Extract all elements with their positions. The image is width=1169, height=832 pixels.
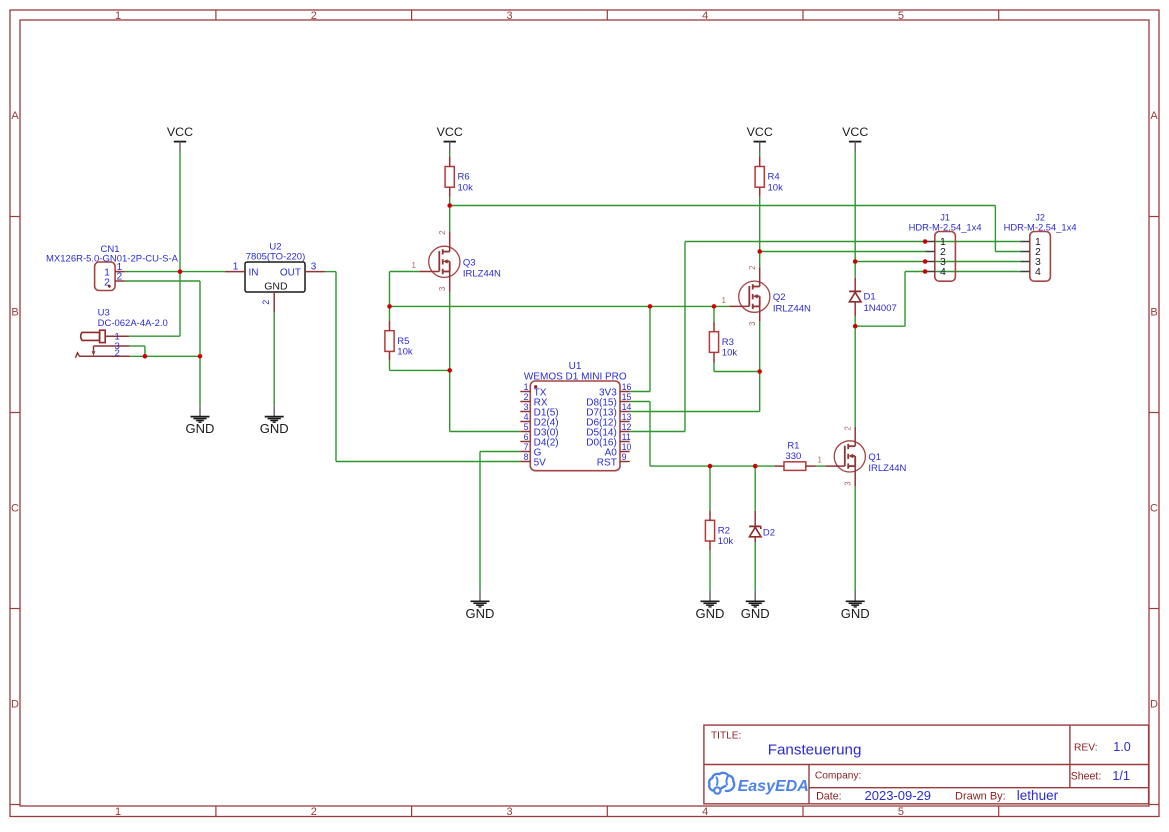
wire R2 drop from R1 row (709, 466, 711, 510)
wire D1 bottom to junction (854, 316, 856, 326)
svg-text:1N4007: 1N4007 (864, 303, 897, 314)
resistor R6 10k (445, 157, 473, 197)
svg-text:10k: 10k (722, 348, 738, 359)
svg-text:5V: 5V (534, 457, 547, 468)
wire R6 junction down to Q3 drain (449, 206, 451, 232)
wire vertical CN1 pin2 down to U3 pin2 row (199, 281, 201, 356)
wire U2 OUT to corner (325, 271, 336, 273)
svg-text:GND: GND (264, 281, 288, 293)
svg-text:HDR-M-2.54_1x4: HDR-M-2.54_1x4 (909, 221, 982, 232)
svg-text:MX126R-5.0-GN01-2P-CU-S-A: MX126R-5.0-GN01-2P-CU-S-A (46, 254, 179, 265)
svg-text:4: 4 (940, 266, 946, 278)
svg-text:2: 2 (311, 806, 317, 818)
svg-text:1: 1 (817, 456, 822, 465)
svg-text:15: 15 (622, 392, 632, 402)
svg-text:Drawn By:: Drawn By: (955, 791, 1006, 803)
wire J1 pin4 row (905, 271, 925, 273)
ground GND below CN1/U3 node (186, 406, 215, 436)
wire VCC down to D1 (854, 152, 856, 278)
wire U2 pin2 to GND (273, 312, 275, 406)
svg-text:Company:: Company: (815, 771, 861, 782)
svg-text:GND: GND (841, 606, 870, 621)
connector U3 DC-062A-4A-2.0 barrel jack (76, 308, 168, 360)
svg-text:GND: GND (186, 421, 215, 436)
Company label (815, 771, 861, 782)
svg-text:1: 1 (412, 261, 417, 270)
wire U1 pin7 G out (480, 451, 520, 453)
regulator U2 7805(TO-220) (225, 241, 325, 312)
wire U3 pin3 drop to pin2 row (144, 346, 146, 356)
title block TITLE label (711, 731, 741, 742)
wire D1 junction down to Q1 drain (854, 326, 856, 426)
svg-text:3: 3 (843, 481, 852, 486)
wire U1 pin14 to Q2 source vertical (630, 411, 760, 413)
svg-text:TITLE:: TITLE: (711, 731, 741, 742)
wire Q1 source down to GND (854, 486, 856, 590)
svg-text:2: 2 (748, 265, 757, 270)
svg-text:16: 16 (622, 382, 632, 392)
svg-text:2: 2 (311, 10, 317, 22)
svg-text:A: A (11, 110, 19, 122)
svg-text:C: C (1150, 502, 1158, 514)
svg-text:D2: D2 (763, 528, 775, 539)
svg-text:C: C (11, 502, 19, 514)
wire J1 pin3 through to J2 pin3 (935, 261, 1020, 263)
svg-text:7: 7 (524, 442, 529, 452)
junction VCC line / J1 pin3 row (853, 259, 858, 264)
wire D3 row to U1 pin5 (450, 431, 521, 433)
wire R4 VCC stub (759, 152, 761, 157)
Date label (816, 791, 842, 803)
wire R5 bottom to Q3 source line (390, 369, 450, 371)
wire R6 bottom to junction (449, 197, 451, 206)
svg-text:VCC: VCC (842, 125, 868, 139)
svg-text:A: A (1150, 110, 1158, 122)
svg-text:GND: GND (260, 421, 289, 436)
wire net row from R5 junction to Q2 gate (390, 305, 730, 307)
wire 3V3 vertical from row to U1 pin16 (649, 306, 651, 391)
svg-text:R4: R4 (768, 172, 780, 183)
Drawn By label (955, 791, 1006, 803)
wire G drop to GND (479, 452, 481, 591)
svg-text:D1: D1 (864, 292, 876, 303)
diode D1 1N4007 (849, 278, 897, 317)
svg-text:2: 2 (438, 230, 447, 235)
svg-text:lethuer: lethuer (1017, 788, 1059, 803)
svg-text:5: 5 (898, 806, 904, 818)
title Fansteuerung (768, 742, 862, 759)
svg-text:R5: R5 (397, 336, 409, 347)
svg-text:10k: 10k (718, 536, 734, 547)
wire Q3 source junction down to D3 row (449, 370, 451, 431)
wire corner up to J1 pin4 row (904, 272, 906, 327)
svg-text:10: 10 (622, 442, 632, 452)
svg-text:4: 4 (524, 412, 529, 422)
svg-text:B: B (1150, 306, 1157, 318)
svg-text:2: 2 (104, 277, 110, 289)
wire J1 pin4 through to J2 pin4 (935, 271, 1020, 273)
transistor Q1 IRLZ44N (817, 426, 906, 487)
svg-text:Q3: Q3 (463, 257, 476, 268)
ground GND below U1 pin G (466, 591, 495, 621)
wire Q2 source down to junction (759, 322, 761, 372)
svg-text:GND: GND (466, 606, 495, 621)
wire R4 bottom down to Q2 drain (759, 197, 761, 267)
junction U3 pin2 row / GND drop (198, 354, 203, 359)
svg-text:1: 1 (115, 806, 121, 818)
diode D2 (749, 511, 775, 542)
wire D1 junction to corner (855, 325, 905, 327)
wire R2 bottom to GND (709, 551, 711, 591)
svg-text:1: 1 (233, 261, 239, 272)
wire R3 bottom to Q2 source junction (714, 371, 760, 373)
resistor R4 10k (755, 157, 783, 197)
svg-text:330: 330 (785, 451, 801, 462)
ground GND below D2 (741, 591, 770, 621)
wire R5 line vertical gate to R5 top (389, 272, 391, 321)
svg-text:OUT: OUT (280, 268, 301, 279)
junction R4 line / J1 pin2 row (757, 249, 762, 254)
junction D2 top / R1 row (753, 464, 758, 469)
svg-text:10k: 10k (397, 347, 413, 358)
junction R3 top / gate net row (712, 304, 717, 309)
svg-text:3: 3 (748, 321, 757, 326)
svg-text:3: 3 (311, 261, 317, 272)
svg-text:Fansteuerung: Fansteuerung (768, 742, 862, 759)
junction Q2 source / R3 bottom (757, 369, 762, 374)
header J2 HDR-M-2.54_1x4 (1004, 212, 1077, 281)
wire D2 bottom to GND (754, 542, 756, 591)
Date value 2023-09-29 (865, 788, 932, 803)
wire U3 pin2 row to GND drop (130, 355, 200, 357)
svg-text:DC-062A-4A-2.0: DC-062A-4A-2.0 (98, 318, 168, 329)
svg-text:3: 3 (524, 402, 529, 412)
wire R3 bottom elbow (713, 363, 715, 372)
wire J1 pin1 row to J1 (685, 241, 925, 243)
junction R5 line / gate net row (387, 304, 392, 309)
svg-text:GND: GND (696, 606, 725, 621)
wire vertical U2 OUT down to 5V row (335, 272, 337, 462)
svg-text:1: 1 (115, 10, 121, 22)
junction 3V3 riser / gate net row (648, 304, 653, 309)
svg-text:R1: R1 (787, 441, 799, 452)
wire Q2 source vertical up to junction (759, 372, 761, 412)
wire R1 row from vertical to R1 (650, 465, 774, 467)
junction Q3 source / R5 bottom (447, 368, 452, 373)
svg-text:7805(TO-220): 7805(TO-220) (246, 252, 306, 263)
svg-text:12: 12 (622, 422, 632, 432)
svg-text:3: 3 (438, 286, 447, 291)
VCC symbol (net VCC) above CN1 (167, 125, 193, 151)
svg-text:IRLZ44N: IRLZ44N (463, 269, 501, 280)
VCC symbol above R6 (437, 125, 463, 151)
svg-text:EasyEDA: EasyEDA (738, 778, 809, 795)
svg-text:10k: 10k (458, 182, 474, 193)
transistor Q2 IRLZ44N (722, 265, 812, 326)
title block grid (704, 725, 1149, 804)
wire Q3 source to junction (449, 292, 451, 371)
svg-text:1.0: 1.0 (1113, 740, 1131, 754)
ground GND below U2 pin 2 (260, 406, 289, 436)
svg-text:9: 9 (622, 452, 627, 462)
MCU module U1 WEMOS D1 MINI PRO (520, 361, 631, 471)
svg-text:3: 3 (506, 806, 512, 818)
svg-text:2: 2 (117, 272, 123, 283)
svg-text:3: 3 (506, 10, 512, 22)
wire into J2 pin2 (995, 251, 1020, 253)
svg-text:B: B (11, 306, 18, 318)
svg-text:5: 5 (524, 422, 529, 432)
svg-text:D: D (11, 699, 19, 711)
svg-text:VCC: VCC (437, 125, 463, 139)
Drawn By value lethuer (1017, 788, 1059, 803)
svg-text:10k: 10k (768, 182, 784, 193)
wire U1 pin12 out (630, 431, 685, 433)
wire Q3 gate row from R5 line (390, 271, 420, 273)
svg-text:Q2: Q2 (773, 292, 786, 303)
wire long top net from R6 junction to right corner (450, 205, 996, 207)
REV label (1074, 743, 1098, 754)
svg-text:IN: IN (249, 268, 259, 279)
svg-text:D: D (1150, 699, 1158, 711)
svg-text:1: 1 (722, 296, 727, 305)
svg-text:GND: GND (741, 606, 770, 621)
Sheet value 1/1 (1112, 769, 1130, 783)
wire R1 to Q1 gate (816, 465, 826, 467)
svg-text:2023-09-29: 2023-09-29 (865, 788, 932, 803)
junction J1 pin1 (923, 239, 928, 244)
svg-text:4: 4 (1035, 266, 1041, 278)
svg-text:4: 4 (702, 806, 708, 818)
svg-text:8: 8 (524, 452, 529, 462)
wire U3 pin1 to VCC vertical (129, 335, 180, 337)
EasyEDA logo (709, 773, 809, 795)
svg-text:2: 2 (843, 426, 852, 431)
wire corner down toward J2 pin2 (994, 206, 996, 252)
wire CN1 pin1 to U2 IN (125, 271, 225, 273)
svg-text:14: 14 (622, 402, 632, 412)
svg-text:VCC: VCC (747, 125, 773, 139)
svg-text:5: 5 (898, 10, 904, 22)
wire 5V row to U1 pin8 (336, 461, 520, 463)
wire VCC vertical to CN1 pin1 row and U3 pin1 (179, 152, 181, 337)
svg-text:Date:: Date: (816, 791, 842, 803)
svg-text:1: 1 (524, 382, 529, 392)
ground GND below R2 (696, 591, 725, 621)
resistor R2 10k (705, 510, 733, 551)
wire U1 pin16 to vertical (630, 391, 650, 393)
svg-text:6: 6 (524, 432, 529, 442)
svg-text:2: 2 (524, 392, 529, 402)
junction D1 bottom / J1 pin4 route (853, 324, 858, 329)
resistor R3 10k (709, 322, 737, 363)
junction U3 pin3 / pin2 row (143, 354, 148, 359)
junction CN1 pin1 / VCC (178, 269, 183, 274)
svg-text:13: 13 (622, 412, 632, 422)
VCC symbol above D1 (842, 125, 868, 151)
svg-text:IRLZ44N: IRLZ44N (868, 463, 906, 474)
svg-text:2: 2 (261, 300, 271, 305)
wire D5 vertical up to J1 pin1 row (684, 242, 686, 432)
resistor R1 330 (774, 441, 815, 471)
wire GND drop below junction (199, 356, 201, 406)
wire U3 pin3 stub to drop (130, 345, 145, 347)
wire Q2 drain row to J1 pin2 (760, 251, 926, 253)
REV value 1.0 (1113, 740, 1131, 754)
wire J1 pin1 row through to J2 pin1 (935, 241, 1020, 243)
svg-text:R6: R6 (458, 172, 470, 183)
svg-text:1/1: 1/1 (1112, 769, 1130, 783)
junction J1 pin3 (923, 259, 928, 264)
svg-text:RST: RST (597, 457, 617, 468)
junction R2 top / R1 row (708, 464, 713, 469)
junction R6 bottom / top net (447, 203, 452, 208)
svg-text:HDR-M-2.54_1x4: HDR-M-2.54_1x4 (1004, 221, 1077, 232)
wire D2 drop from R1 row (754, 466, 756, 511)
wire U1 pin15 to vertical (630, 401, 650, 403)
svg-text:11: 11 (622, 432, 631, 442)
wire R3 top from gate row (713, 306, 715, 321)
svg-text:4: 4 (702, 10, 708, 22)
junction J1 pin4 (923, 269, 928, 274)
svg-text:IRLZ44N: IRLZ44N (773, 304, 811, 315)
wire R5 bottom elbow (389, 360, 391, 370)
resistor R5 10k (385, 321, 413, 361)
wire VCC row to J1 pin3 (855, 261, 925, 263)
transistor Q3 IRLZ44N (412, 230, 502, 292)
svg-text:VCC: VCC (167, 125, 193, 139)
wire VCC to R6 (449, 152, 451, 157)
header J1 HDR-M-2.54_1x4 (909, 212, 982, 281)
connector CN1 MX126R-5.0-GN01-2P-CU-S-A (46, 244, 179, 291)
svg-text:R3: R3 (722, 337, 734, 348)
svg-text:Sheet:: Sheet: (1071, 771, 1102, 783)
ground GND below Q1 source (841, 591, 870, 621)
svg-text:R2: R2 (718, 525, 730, 536)
wire D8 vertical down to R1 row (649, 402, 651, 467)
svg-text:Q1: Q1 (868, 452, 881, 463)
svg-text:WEMOS D1 MINI PRO: WEMOS D1 MINI PRO (524, 371, 627, 382)
Sheet label (1071, 771, 1102, 783)
wire CN1 pin2 to vertical (125, 280, 200, 282)
svg-text:U1: U1 (569, 361, 582, 372)
VCC symbol above R4 (747, 125, 773, 151)
svg-text:REV:: REV: (1074, 743, 1098, 754)
svg-text:2: 2 (115, 348, 120, 359)
